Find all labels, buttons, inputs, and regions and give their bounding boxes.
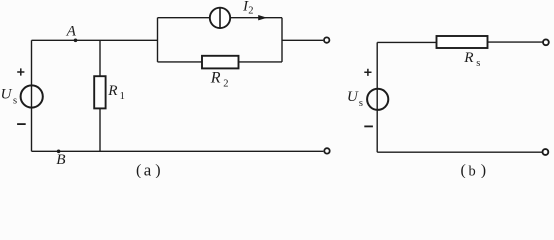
svg-text:R: R: [107, 82, 118, 99]
svg-text:(: (: [136, 162, 141, 178]
svg-text:A: A: [66, 23, 77, 40]
svg-text:s: s: [13, 96, 17, 107]
svg-text:2: 2: [248, 5, 253, 16]
svg-text:U: U: [1, 86, 13, 103]
svg-text:2: 2: [223, 79, 228, 90]
svg-text:): ): [155, 162, 160, 178]
svg-text:1: 1: [120, 91, 125, 102]
svg-text:R: R: [463, 49, 474, 66]
svg-text:R: R: [210, 69, 221, 86]
svg-text:B: B: [56, 151, 65, 168]
svg-text:): ): [481, 162, 486, 178]
svg-text:s: s: [359, 98, 363, 109]
svg-text:a: a: [144, 161, 152, 178]
svg-text:U: U: [347, 88, 359, 105]
svg-text:(: (: [461, 162, 466, 178]
svg-text:b: b: [469, 163, 476, 178]
svg-text:s: s: [476, 58, 480, 69]
